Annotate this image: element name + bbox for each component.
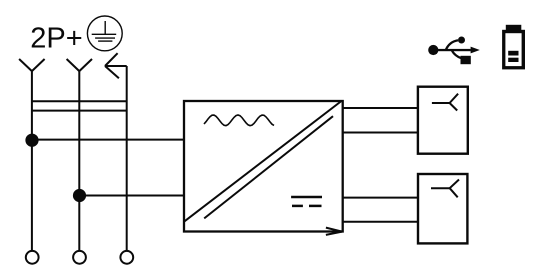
wire N vertical xyxy=(78,71,80,251)
earth arrow xyxy=(105,53,127,78)
output box 1 xyxy=(418,87,468,154)
junction node N xyxy=(73,189,86,202)
cable bus line lower xyxy=(32,110,127,112)
wire L to converter xyxy=(32,139,184,141)
protective earth symbol circle xyxy=(87,16,122,51)
USB icon xyxy=(428,37,480,65)
wire PE vertical xyxy=(126,66,128,251)
AC sine symbol xyxy=(204,115,274,126)
cable bus line upper xyxy=(32,100,127,102)
wire converter to output1 a xyxy=(343,107,418,109)
wire converter to output2 a xyxy=(343,197,418,199)
AC/DC converter U1 box xyxy=(184,101,343,232)
plug pin L (fork) xyxy=(19,59,44,71)
wire L vertical xyxy=(31,71,33,251)
svg-text:2P+: 2P+ xyxy=(30,23,82,55)
wire converter to output2 b xyxy=(343,221,418,223)
output socket symbol 1 xyxy=(432,94,458,111)
battery icon xyxy=(502,25,525,70)
converter diagonal second xyxy=(204,116,333,218)
terminal circle L xyxy=(26,251,39,264)
arrow on converter bottom edge xyxy=(326,228,342,235)
wire converter to output1 b xyxy=(343,132,418,134)
terminal circle PE xyxy=(120,251,133,264)
terminal circle N xyxy=(73,251,86,264)
USB branch curves xyxy=(446,40,458,50)
DC symbol dashed line xyxy=(292,205,322,208)
output socket symbol 2 xyxy=(431,180,459,198)
wire N to converter xyxy=(80,195,185,197)
converter diagonal main xyxy=(185,102,341,222)
plug pin N (fork) xyxy=(67,59,92,71)
earth symbol xyxy=(92,21,117,41)
output box 2 xyxy=(418,174,467,243)
junction node L xyxy=(25,134,38,147)
DC symbol solid line xyxy=(291,196,322,199)
